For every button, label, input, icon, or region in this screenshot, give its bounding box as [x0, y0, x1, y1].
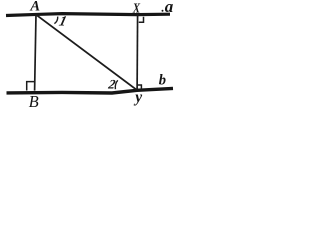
wire segment AB [35, 14, 36, 90]
right-angle mark at X [139, 17, 144, 22]
wire segment XY [136, 14, 139, 89]
angle 2 arc [115, 80, 118, 89]
angle 1 arc [54, 17, 57, 24]
dot before a [162, 10, 164, 12]
svg-text:A: A [29, 0, 40, 15]
right-angle mark at B [27, 82, 35, 91]
svg-text:1: 1 [57, 14, 68, 30]
svg-text:y: y [133, 89, 142, 106]
svg-text:B: B [29, 92, 39, 111]
line a [6, 14, 170, 16]
svg-text:b: b [159, 73, 166, 89]
right-angle mark at Y [137, 85, 141, 90]
line b [7, 88, 174, 93]
svg-text:X: X [132, 2, 140, 17]
svg-text:a: a [165, 0, 174, 16]
wire segment AY (diagonal) [36, 15, 136, 90]
